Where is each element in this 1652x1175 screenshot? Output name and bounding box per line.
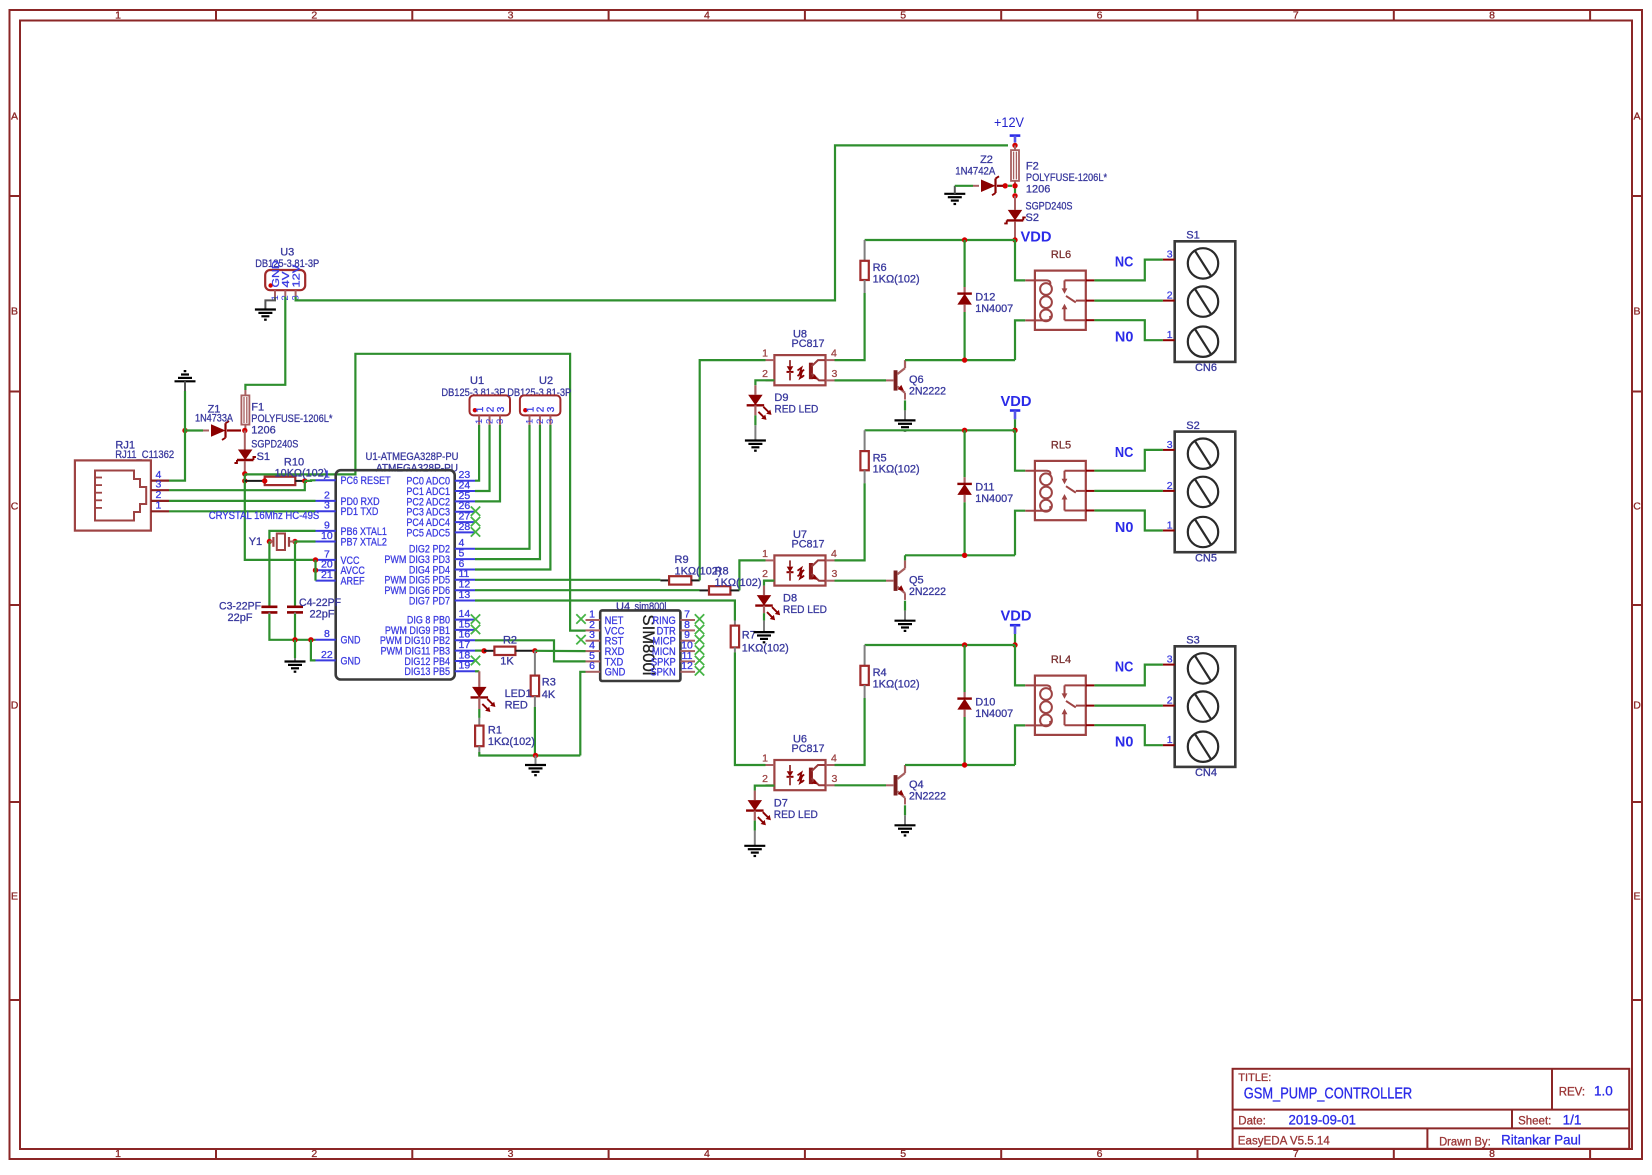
svg-text:ATMEGA328P-PU: ATMEGA328P-PU [376, 463, 458, 475]
svg-text:3: 3 [1167, 249, 1173, 261]
svg-text:Q6: Q6 [909, 374, 924, 386]
svg-text:GSM_PUMP_CONTROLLER: GSM_PUMP_CONTROLLER [1244, 1085, 1412, 1102]
svg-text:D9: D9 [774, 392, 788, 404]
svg-text:1: 1 [762, 753, 768, 765]
svg-text:R5: R5 [873, 452, 887, 464]
svg-text:2: 2 [536, 406, 547, 412]
svg-text:RJ11_C11362: RJ11_C11362 [115, 449, 174, 461]
svg-text:3: 3 [324, 500, 330, 512]
svg-text:PC817: PC817 [792, 338, 825, 350]
svg-text:DIG13 PB5: DIG13 PB5 [404, 666, 450, 678]
svg-text:Date:: Date: [1238, 1116, 1266, 1128]
svg-text:3: 3 [495, 419, 506, 424]
svg-text:1/1: 1/1 [1563, 1113, 1582, 1128]
svg-text:7: 7 [1293, 1148, 1299, 1160]
svg-text:1: 1 [762, 548, 768, 560]
svg-text:SGPD240S: SGPD240S [251, 439, 298, 451]
svg-text:3: 3 [1167, 654, 1173, 666]
svg-text:R6: R6 [873, 262, 887, 274]
svg-text:RED LED: RED LED [774, 809, 818, 821]
svg-text:1: 1 [524, 419, 535, 424]
svg-text:R1: R1 [488, 724, 502, 736]
svg-text:D7: D7 [774, 797, 788, 809]
svg-text:4: 4 [831, 348, 837, 360]
svg-text:PC6 RESET: PC6 RESET [341, 475, 391, 487]
svg-text:NC: NC [1115, 255, 1134, 271]
svg-text:28: 28 [459, 521, 471, 533]
svg-text:10: 10 [321, 530, 333, 542]
svg-text:3: 3 [508, 1148, 514, 1160]
svg-text:1: 1 [115, 10, 121, 22]
svg-text:1K: 1K [500, 656, 514, 668]
svg-text:10KΩ(102): 10KΩ(102) [275, 468, 328, 480]
svg-text:5: 5 [900, 10, 906, 22]
svg-text:VDD: VDD [1001, 393, 1032, 410]
svg-text:S2: S2 [1026, 212, 1039, 224]
svg-text:RL5: RL5 [1051, 439, 1071, 451]
svg-text:AREF: AREF [341, 576, 365, 588]
svg-text:C: C [11, 501, 19, 513]
svg-text:CN5: CN5 [1195, 552, 1217, 564]
svg-text:1: 1 [1167, 519, 1173, 531]
svg-text:1: 1 [762, 348, 768, 360]
svg-text:2N2222: 2N2222 [909, 386, 946, 398]
svg-text:1.0: 1.0 [1594, 1083, 1613, 1098]
svg-text:1: 1 [115, 1148, 121, 1160]
svg-text:RL4: RL4 [1051, 654, 1071, 666]
svg-text:Q5: Q5 [909, 575, 924, 587]
svg-text:PC5 ADC5: PC5 ADC5 [406, 527, 450, 539]
svg-text:SPKN: SPKN [650, 667, 675, 679]
svg-text:Drawn By:: Drawn By: [1439, 1136, 1491, 1148]
svg-text:1KΩ(102): 1KΩ(102) [873, 678, 920, 690]
svg-text:GND: GND [605, 667, 626, 679]
svg-text:A: A [11, 111, 18, 123]
svg-text:3: 3 [832, 568, 838, 580]
svg-text:B: B [11, 306, 18, 318]
svg-text:R4: R4 [873, 667, 887, 679]
svg-text:1206: 1206 [251, 425, 275, 437]
svg-text:1: 1 [1167, 329, 1173, 341]
svg-text:4: 4 [704, 1148, 710, 1160]
svg-text:4K: 4K [542, 689, 556, 701]
svg-text:3: 3 [546, 406, 557, 412]
svg-text:RED LED: RED LED [774, 404, 818, 416]
svg-text:GND: GND [341, 635, 361, 647]
svg-text:D: D [11, 700, 19, 712]
svg-text:1: 1 [324, 469, 330, 481]
svg-text:2: 2 [762, 568, 768, 580]
svg-text:TITLE:: TITLE: [1238, 1072, 1271, 1084]
svg-text:C: C [1633, 501, 1641, 513]
svg-text:Q4: Q4 [909, 779, 924, 791]
svg-text:R9: R9 [675, 554, 689, 566]
svg-text:8: 8 [1489, 10, 1495, 22]
svg-text:F1: F1 [251, 401, 264, 413]
svg-text:U3: U3 [280, 247, 294, 259]
svg-text:19: 19 [459, 660, 471, 672]
svg-text:3: 3 [832, 368, 838, 380]
svg-text:S3: S3 [1186, 635, 1199, 647]
svg-text:DB125-3.81-3P: DB125-3.81-3P [507, 387, 571, 399]
svg-text:+12V: +12V [994, 114, 1025, 130]
svg-text:22pF: 22pF [309, 609, 334, 621]
svg-text:3: 3 [496, 406, 507, 412]
svg-text:1: 1 [475, 406, 486, 412]
svg-text:VDD: VDD [1001, 608, 1032, 625]
svg-text:2: 2 [762, 368, 768, 380]
svg-text:5: 5 [900, 1148, 906, 1160]
svg-text:LED1: LED1 [505, 688, 532, 700]
svg-text:Z2: Z2 [980, 154, 993, 166]
svg-text:4: 4 [704, 10, 710, 22]
svg-text:22pF: 22pF [227, 612, 252, 624]
svg-text:8: 8 [1489, 1148, 1495, 1160]
svg-text:2019-09-01: 2019-09-01 [1289, 1113, 1357, 1128]
svg-text:1: 1 [474, 419, 485, 424]
svg-text:B: B [1633, 306, 1640, 318]
svg-text:6: 6 [1097, 1148, 1103, 1160]
svg-text:N0: N0 [1115, 735, 1134, 751]
svg-text:1206: 1206 [1026, 184, 1050, 196]
svg-text:3: 3 [832, 773, 838, 785]
svg-text:1KΩ(102): 1KΩ(102) [742, 642, 789, 654]
svg-text:2: 2 [535, 419, 546, 424]
svg-text:12: 12 [681, 660, 693, 672]
svg-text:U1: U1 [470, 375, 484, 387]
svg-text:PC817: PC817 [792, 743, 825, 755]
svg-text:EasyEDA V5.5.14: EasyEDA V5.5.14 [1238, 1136, 1331, 1148]
svg-text:POLYFUSE-1206L*: POLYFUSE-1206L* [1026, 172, 1108, 184]
svg-text:R2: R2 [503, 635, 517, 647]
svg-text:RED LED: RED LED [783, 604, 827, 616]
svg-text:3: 3 [545, 419, 556, 424]
svg-text:6: 6 [1097, 10, 1103, 22]
svg-text:6: 6 [589, 660, 595, 672]
svg-text:Y1: Y1 [249, 536, 262, 548]
svg-text:R8: R8 [715, 566, 729, 578]
svg-text:R10: R10 [284, 456, 304, 468]
svg-text:D8: D8 [783, 592, 797, 604]
svg-text:U1-ATMEGA328P-PU: U1-ATMEGA328P-PU [366, 451, 459, 463]
svg-text:RL6: RL6 [1051, 249, 1071, 261]
svg-text:2: 2 [485, 406, 496, 412]
svg-text:4: 4 [831, 753, 837, 765]
svg-text:7: 7 [1293, 10, 1299, 22]
svg-text:PC817: PC817 [792, 539, 825, 551]
svg-text:Ritankar Paul: Ritankar Paul [1501, 1133, 1581, 1148]
svg-text:1: 1 [1167, 734, 1173, 746]
svg-text:2: 2 [311, 1148, 317, 1160]
svg-text:NC: NC [1115, 445, 1134, 461]
svg-text:1: 1 [156, 500, 162, 512]
svg-text:U2: U2 [539, 375, 553, 387]
svg-text:2N2222: 2N2222 [909, 586, 946, 598]
svg-text:N0: N0 [1115, 520, 1134, 536]
svg-text:PB7 XTAL2: PB7 XTAL2 [341, 536, 387, 548]
svg-text:F2: F2 [1026, 161, 1039, 173]
svg-text:DB125-3.81-3P: DB125-3.81-3P [441, 387, 505, 399]
svg-text:2: 2 [1167, 290, 1173, 302]
svg-text:3: 3 [1167, 439, 1173, 451]
svg-text:Sheet:: Sheet: [1518, 1116, 1551, 1128]
svg-text:1KΩ(102): 1KΩ(102) [715, 577, 762, 589]
svg-text:A: A [1633, 111, 1640, 123]
svg-text:22: 22 [321, 649, 333, 661]
svg-text:S2: S2 [1186, 420, 1199, 432]
svg-text:S1: S1 [257, 451, 270, 463]
svg-text:NC: NC [1115, 660, 1134, 676]
svg-text:S1: S1 [1186, 230, 1199, 242]
svg-text:2N2222: 2N2222 [909, 791, 946, 803]
svg-text:21: 21 [321, 569, 333, 581]
svg-text:1N4007: 1N4007 [975, 708, 1013, 720]
svg-text:E: E [1633, 891, 1640, 903]
svg-text:DB125-3.81-3P: DB125-3.81-3P [255, 258, 319, 270]
svg-text:12V: 12V [290, 265, 302, 288]
svg-text:1KΩ(102): 1KΩ(102) [873, 464, 920, 476]
svg-text:POLYFUSE-1206L*: POLYFUSE-1206L* [251, 413, 333, 425]
svg-text:CRYSTAL 16Mhz HC-49S: CRYSTAL 16Mhz HC-49S [209, 510, 320, 522]
svg-text:CN6: CN6 [1195, 362, 1217, 374]
svg-text:SGPD240S: SGPD240S [1026, 201, 1073, 213]
svg-text:1KΩ(102): 1KΩ(102) [873, 273, 920, 285]
svg-text:8: 8 [324, 628, 330, 640]
svg-text:2: 2 [311, 10, 317, 22]
svg-text:VDD: VDD [1021, 228, 1052, 245]
svg-text:CN4: CN4 [1195, 767, 1217, 779]
svg-text:2: 2 [484, 419, 495, 424]
svg-text:4: 4 [831, 548, 837, 560]
svg-text:N0: N0 [1115, 330, 1134, 346]
svg-text:REV:: REV: [1559, 1086, 1585, 1098]
svg-text:2: 2 [1167, 480, 1173, 492]
svg-text:13: 13 [459, 589, 471, 601]
svg-text:1N4007: 1N4007 [975, 303, 1013, 315]
svg-text:C3-22PF: C3-22PF [219, 601, 261, 613]
svg-text:1N4007: 1N4007 [975, 493, 1013, 505]
svg-text:C4-22PF: C4-22PF [299, 597, 341, 609]
svg-text:E: E [11, 891, 18, 903]
svg-text:R3: R3 [542, 676, 556, 688]
svg-text:D11: D11 [975, 482, 994, 494]
svg-text:D12: D12 [975, 291, 995, 303]
svg-text:GND: GND [341, 655, 361, 667]
svg-text:2: 2 [762, 773, 768, 785]
svg-text:1KΩ(102): 1KΩ(102) [488, 736, 535, 748]
svg-text:1N4742A: 1N4742A [955, 166, 996, 178]
svg-text:DIG7 PD7: DIG7 PD7 [409, 595, 450, 607]
svg-text:1: 1 [525, 406, 536, 412]
svg-text:2: 2 [1167, 695, 1173, 707]
svg-text:D: D [1633, 700, 1641, 712]
svg-text:PD1 TXD: PD1 TXD [341, 506, 379, 518]
svg-text:3: 3 [508, 10, 514, 22]
svg-text:RED: RED [505, 700, 528, 712]
svg-text:1N4733A: 1N4733A [195, 413, 234, 425]
svg-text:D10: D10 [975, 696, 995, 708]
